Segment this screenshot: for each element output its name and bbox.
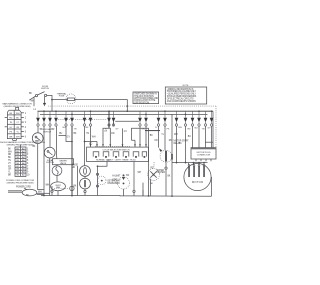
svg-text:WH: WH xyxy=(8,151,12,153)
junction at feed drop xyxy=(127,105,129,107)
svg-text:WH: WH xyxy=(174,134,178,136)
label: power cord xyxy=(16,186,31,190)
svg-text:WH: WH xyxy=(92,137,96,139)
wire: T7 drop to rinse solenoid xyxy=(84,126,86,165)
heater thermostat dashed circle xyxy=(148,169,166,186)
wire: bridge jog A xyxy=(103,128,110,135)
wire: T17-T20 drops into motor connector xyxy=(193,126,212,147)
water valve coil xyxy=(52,166,62,176)
svg-text:TN: TN xyxy=(86,133,89,135)
selector contact K2 xyxy=(103,152,109,158)
wire: T11 T12 drops into selector box xyxy=(140,126,146,147)
wire: T4 into water valve xyxy=(56,156,59,182)
svg-text:STAT: STAT xyxy=(112,179,118,182)
wire: T4 drop to bottom bus xyxy=(56,126,58,156)
wire: T3 drop to water valve coil xyxy=(49,126,51,147)
svg-text:FUSE: FUSE xyxy=(59,96,65,98)
svg-text:RD: RD xyxy=(188,129,191,131)
scattered wire color-code labels xyxy=(33,131,192,187)
timer contact T8 xyxy=(89,111,93,126)
wire: T15 drop to motor bus xyxy=(176,126,178,162)
timer contact T14 xyxy=(163,111,167,126)
wire: heater drop to bus xyxy=(150,179,152,196)
svg-text:OR: OR xyxy=(141,128,145,130)
wire: heavy drop at 109 xyxy=(108,111,110,128)
wire: door latch to bottom xyxy=(38,144,44,190)
connector P1 cell wire-code texts xyxy=(9,113,26,138)
wire: drops into motor xyxy=(189,163,205,165)
terminal: bottom 134 xyxy=(133,190,135,192)
legend box: switch position note xyxy=(133,92,159,104)
wire: T2 drop to bottom bus xyxy=(43,126,45,195)
wire: bridge jog B xyxy=(132,128,149,140)
wire: door switch left drop xyxy=(44,97,46,107)
detergent dispenser dashed circle xyxy=(98,176,122,185)
svg-text:WH: WH xyxy=(46,185,50,187)
svg-text:MOTOR: MOTOR xyxy=(192,180,204,184)
wire: T6 heavy drop xyxy=(71,126,73,195)
wire: bottom neutral bus xyxy=(41,195,212,198)
svg-text:(VIEWED FROM WIRE SIDE): (VIEWED FROM WIRE SIDE) xyxy=(7,182,34,184)
svg-text:OR: OR xyxy=(154,140,158,142)
vent fan ellipse xyxy=(51,182,66,191)
dashed vertical 154 xyxy=(153,162,155,168)
wire: top feed line L1 xyxy=(52,100,127,112)
timer contact T18 xyxy=(197,111,201,126)
timer contact T15 xyxy=(175,111,179,126)
svg-text:RD: RD xyxy=(9,118,12,120)
svg-text:VALVE: VALVE xyxy=(60,162,67,165)
svg-text:RD: RD xyxy=(8,154,12,156)
label: console harness connector caption xyxy=(0,141,45,146)
svg-text:WH: WH xyxy=(31,101,35,103)
labels under terminals xyxy=(40,127,211,130)
svg-text:BR: BR xyxy=(9,136,12,138)
connector P2 row labels and pin numbers xyxy=(8,148,30,176)
thermostat dashed circle xyxy=(112,174,129,189)
svg-text:RD: RD xyxy=(111,133,115,135)
terminal: bottom 52 xyxy=(51,190,53,192)
wire: door switch drop to left xyxy=(33,97,35,106)
wire: step to motor connector xyxy=(205,141,213,143)
svg-text:BU: BU xyxy=(59,133,62,135)
wire: feed 97 into selector box xyxy=(85,142,97,148)
wire: motor bus xyxy=(172,162,208,164)
wire: T8 drop into selector box xyxy=(90,126,92,147)
timer contact T1 xyxy=(36,111,40,126)
svg-text:RD: RD xyxy=(151,168,155,170)
wire: right boundary drop xyxy=(212,111,214,147)
svg-text:DISPENSER: DISPENSER xyxy=(108,183,121,185)
timer contact T16 xyxy=(184,111,188,126)
door switch symbol xyxy=(29,86,50,100)
connector P2 cell texts xyxy=(16,147,25,176)
svg-text:HI-LIMIT: HI-LIMIT xyxy=(112,175,121,177)
wire: T5 drop to jog xyxy=(59,126,73,141)
svg-text:BR: BR xyxy=(8,175,11,177)
thermal fuse label xyxy=(57,92,68,97)
heavy tap on wire 172 xyxy=(171,154,173,160)
timer contact T17 xyxy=(191,111,195,126)
svg-text:TN: TN xyxy=(8,160,11,162)
wire: link T10 to T11 xyxy=(115,120,139,122)
timer contact T12 xyxy=(144,111,148,126)
dashed link bottom left xyxy=(54,187,68,189)
wire: short vent return xyxy=(77,166,79,196)
svg-text:POWER CORD: POWER CORD xyxy=(16,186,31,188)
wire: solenoid joins xyxy=(84,176,86,190)
timer contact T11 xyxy=(138,111,142,126)
connector P2 console harness terminal strip xyxy=(15,145,26,177)
selector contact K6 xyxy=(142,152,146,158)
label: above motor area xyxy=(174,140,190,145)
wire: dotted right edge drop xyxy=(215,106,217,147)
motor windings xyxy=(188,166,205,177)
wire: mid-right run 172 xyxy=(171,114,173,196)
timer contact T5 xyxy=(64,111,68,126)
wire: drop 143 xyxy=(142,183,144,196)
terminal: bottom 72 ring xyxy=(70,186,74,190)
svg-text:SWITCH: SWITCH xyxy=(41,88,50,90)
timer contact T10 xyxy=(112,111,116,126)
label: power cord connector caption xyxy=(6,180,34,184)
rinse aid solenoid circle xyxy=(80,166,91,177)
timer contact T4 xyxy=(54,111,58,126)
heavy link at 130.6 xyxy=(145,130,160,132)
junctions on motor bus xyxy=(176,162,205,164)
wire: T10 drop xyxy=(114,121,123,147)
label: rinse aid xyxy=(72,165,79,169)
svg-text:WH: WH xyxy=(178,127,182,129)
timer contact T19 xyxy=(204,111,208,126)
wire: T16 drop to motor xyxy=(185,126,187,162)
label: door latch switch xyxy=(40,128,54,133)
svg-text:BU: BU xyxy=(8,157,11,159)
wire: second bus xyxy=(40,113,208,115)
svg-text:WH: WH xyxy=(138,172,142,174)
svg-text:WH: WH xyxy=(16,113,20,115)
svg-text:OR: OR xyxy=(16,127,20,129)
dotted feed above box xyxy=(95,146,130,148)
wire: dotted neutral run xyxy=(48,105,216,107)
float switch body xyxy=(44,147,55,158)
svg-text:NORMAL · HEAVY · LIGHT · RINSE: NORMAL · HEAVY · LIGHT · RINSE · HOLD xyxy=(96,159,136,162)
timer contact T20 xyxy=(210,111,214,126)
junction dots on buses xyxy=(43,110,212,115)
selector contact K5 xyxy=(133,152,139,158)
timer contact T3 xyxy=(48,111,52,126)
door latch switch body xyxy=(32,133,43,144)
wash solenoid circle xyxy=(80,178,91,189)
motor M1 body xyxy=(184,163,211,190)
selector switch box xyxy=(87,147,149,161)
selector contact K4 xyxy=(123,152,129,158)
timer contact T6 xyxy=(70,111,74,126)
wire: T14 drop to drain solenoid top xyxy=(164,126,166,150)
svg-text:SWITCH: SWITCH xyxy=(43,131,52,133)
power cord cable and strain relief xyxy=(8,189,50,196)
wire: box exit step xyxy=(98,162,108,196)
terminals on dispenser wire xyxy=(96,173,98,175)
svg-text:BU: BU xyxy=(188,136,191,138)
water valve label box xyxy=(53,159,74,165)
svg-text:CYCLE SELECTOR SWITCH: CYCLE SELECTOR SWITCH xyxy=(103,149,130,151)
thermal fuse dashed circle xyxy=(66,94,76,104)
motor connector box xyxy=(191,148,216,162)
svg-text:OR: OR xyxy=(8,169,12,171)
label: float switch xyxy=(46,159,55,164)
svg-text:RD: RD xyxy=(169,140,173,142)
wire: T9 drop into selector box xyxy=(103,135,110,147)
wire: thermostat drop xyxy=(124,162,135,196)
timer contact T2 xyxy=(42,111,46,126)
svg-text:WH: WH xyxy=(16,136,20,138)
junction dots lower area xyxy=(43,141,173,197)
drain solenoid dashed circle xyxy=(151,150,172,169)
label: main harness connector caption xyxy=(2,103,32,108)
wire: dotted segment under row xyxy=(56,119,107,121)
wire: door switch to top bus xyxy=(47,95,52,111)
wire: motor to bottom bus xyxy=(211,177,213,196)
timer contact T9 xyxy=(107,111,111,126)
wire: T13 drop and arrow to drain solenoid xyxy=(158,126,160,147)
selector contact K1 xyxy=(93,152,99,158)
terminal: drain 166 xyxy=(165,167,167,169)
wire: float switch drop xyxy=(49,158,51,196)
svg-text:HEATER: HEATER xyxy=(157,171,166,174)
arrowheads entering selector box xyxy=(90,144,147,147)
svg-text:FAN: FAN xyxy=(56,186,60,189)
svg-text:AID: AID xyxy=(72,166,76,169)
svg-text:SWITCH: SWITCH xyxy=(46,162,55,164)
wire: drain solenoid drop xyxy=(165,162,167,196)
wire: drop 148.5 to bottom bus xyxy=(148,131,150,196)
wire: drop 135 into selector box xyxy=(132,140,136,147)
selector contact K3 xyxy=(113,152,119,158)
wire: verticals to bottom right xyxy=(142,190,144,196)
timer contact T7 xyxy=(83,111,87,126)
connector P1 main harness connector body xyxy=(7,107,21,140)
svg-text:AND COMPONENTS SHOWN: AND COMPONENTS SHOWN xyxy=(167,100,196,103)
svg-text:WH: WH xyxy=(38,192,42,194)
svg-text:OFF POSITION: OFF POSITION xyxy=(134,102,149,104)
wire: main bus L1 xyxy=(38,110,214,112)
wire: vent fan to bottom bus xyxy=(57,191,59,196)
note box: wiring information xyxy=(165,85,206,104)
timer contact T13 xyxy=(157,111,161,126)
terminal: bottom 85 xyxy=(84,190,86,192)
wire: T1 drop to door latch coil xyxy=(37,126,39,133)
svg-text:CONNECTOR: CONNECTOR xyxy=(197,155,211,157)
motor winding terminals xyxy=(188,165,205,167)
connector P1 pin stub ticks xyxy=(5,113,24,137)
label: power cord wire codes xyxy=(26,192,42,198)
